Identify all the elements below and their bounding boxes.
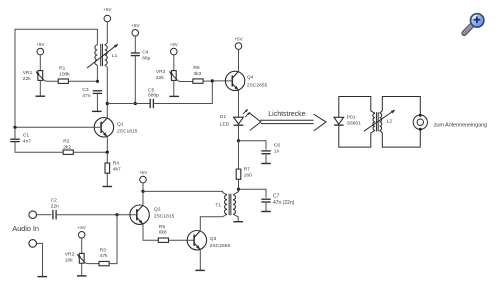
wire Q1 collector to rail node <box>106 104 108 118</box>
power +5V above C4 <box>132 30 139 37</box>
svg-text:3k3: 3k3 <box>193 71 201 77</box>
ground under Q3 <box>195 269 205 271</box>
svg-text:680p: 680p <box>148 93 159 99</box>
wire Q4 emitter to D1 <box>238 90 240 117</box>
wire +5V to Q4 collector <box>238 49 240 71</box>
svg-text:R1: R1 <box>59 65 66 71</box>
wire Q3 emitter to ground <box>199 250 201 271</box>
transistor Q3 <box>187 231 206 250</box>
wire R4 top lead <box>106 152 108 163</box>
ground under VR1 <box>36 95 46 97</box>
node Q2 collector / T1 junction <box>141 190 144 193</box>
power +5V above VR2 <box>78 232 85 239</box>
wire VR3 bottom to ground <box>173 80 175 96</box>
wire R7 top lead <box>238 141 240 169</box>
svg-text:R5: R5 <box>159 224 166 230</box>
svg-text:2SC2655: 2SC2655 <box>210 243 231 249</box>
power +5V above VR1 <box>37 48 44 55</box>
power +5V above Q4 <box>235 43 242 50</box>
node R7 / T1 / C7 junction <box>237 188 240 191</box>
resistor R5 <box>158 238 168 242</box>
svg-text:47n: 47n <box>82 93 90 99</box>
wire C1 bottom to R2 <box>15 142 63 153</box>
wire Q1 emitter down <box>106 137 108 152</box>
svg-text:S6801: S6801 <box>347 120 361 126</box>
node D1 / R7 / C6 junction <box>237 139 240 142</box>
svg-text:Lichtstrecke: Lichtstrecke <box>268 109 305 118</box>
capacitor C4 <box>131 52 140 54</box>
svg-text:+5V: +5V <box>234 36 243 41</box>
svg-text:C7: C7 <box>273 194 280 200</box>
icon zoom magnifier <box>464 14 484 34</box>
svg-text:160: 160 <box>244 173 252 179</box>
svg-text:+5V: +5V <box>131 23 140 28</box>
wire VR1 bottom to ground <box>39 80 41 96</box>
connector Audio In terminal 1 <box>29 211 37 219</box>
svg-text:6k8: 6k8 <box>159 230 167 236</box>
wire C5 to Q4 base node <box>153 81 212 104</box>
svg-text:R6: R6 <box>193 65 200 71</box>
transistor Q1 <box>94 118 113 137</box>
ground under C3 <box>92 110 102 112</box>
node Q1 base / C1 / feedback junction <box>13 126 16 129</box>
svg-text:Q4: Q4 <box>247 75 254 81</box>
svg-text:22n: 22n <box>51 203 59 209</box>
svg-text:10k: 10k <box>65 258 73 264</box>
svg-text:47k: 47k <box>100 253 108 259</box>
wire node to Q2 base <box>117 214 137 216</box>
node C4/rail junction <box>134 102 137 105</box>
wire C4 to rail <box>134 56 136 104</box>
wire T1 right winding bottom to ground <box>233 214 238 221</box>
svg-text:Q1: Q1 <box>117 121 124 127</box>
svg-text:+5V: +5V <box>36 42 45 47</box>
wire VR2 wiper to R3 <box>85 263 99 264</box>
wire L1 left winding bottom to node <box>96 65 98 81</box>
wire C6 to ground <box>265 154 267 164</box>
node L1/R1/C3 junction <box>96 80 99 83</box>
svg-text:R4: R4 <box>113 160 120 166</box>
wire R5 to Q3 base <box>169 239 195 241</box>
wire R4 to ground <box>106 173 108 186</box>
resistor R6 <box>193 79 203 83</box>
wire R1 to node <box>68 80 97 82</box>
node Q1 collector / rail junction <box>106 102 109 105</box>
wire node to Q4 base <box>212 80 232 82</box>
svg-text:C2: C2 <box>51 197 58 203</box>
wire R7 bottom to node <box>238 179 240 189</box>
wire R6 to Q4 base node <box>203 80 212 82</box>
wire +5V to VR3 <box>173 55 175 71</box>
wire +5V to C4 <box>134 36 136 53</box>
D1 emission arrow 2 <box>245 113 249 117</box>
svg-text:VR2: VR2 <box>65 252 75 258</box>
svg-text:C3: C3 <box>82 87 89 93</box>
wire D1 cathode down <box>238 125 240 141</box>
Lichtstrecke beam shaft <box>260 119 314 121</box>
connector pin dot bottom <box>419 128 422 131</box>
resistor R4 <box>105 163 110 173</box>
wire VR3 wiper to R6 <box>177 80 193 82</box>
svg-text:C6: C6 <box>274 143 281 149</box>
wire node to C7 <box>239 189 267 198</box>
wire C1 top lead <box>14 127 16 139</box>
trimmer VR3 <box>171 71 176 81</box>
svg-text:47n (22n): 47n (22n) <box>273 200 295 206</box>
ground under C7 <box>261 211 271 213</box>
wire node to T1 left winding <box>143 191 227 194</box>
svg-text:4k7: 4k7 <box>113 166 121 172</box>
capacitor C6 <box>261 150 270 152</box>
svg-text:L2: L2 <box>387 119 393 125</box>
resistor R2 <box>63 150 73 154</box>
power +5V above L1 <box>104 15 111 22</box>
D1 emission arrow 1 <box>243 110 247 114</box>
resistor R1 <box>58 79 68 83</box>
svg-text:VR1: VR1 <box>23 70 33 76</box>
LED D1 <box>234 117 244 124</box>
svg-text:R3: R3 <box>100 248 107 254</box>
svg-text:R2: R2 <box>63 139 70 145</box>
svg-text:1n: 1n <box>274 149 280 155</box>
node Q4 base junction <box>211 79 214 82</box>
ground under R4 <box>103 186 113 188</box>
wire terminal 2 to ground <box>37 243 43 276</box>
wire C2 to Q2 base node <box>56 214 117 216</box>
wire C3 to ground <box>96 93 98 111</box>
wire R3 up to base node <box>109 215 117 264</box>
capacitor C5 <box>149 99 151 108</box>
transistor Q2 <box>130 205 149 224</box>
svg-text:2k2: 2k2 <box>63 145 71 151</box>
svg-text:Audio In: Audio In <box>12 224 39 233</box>
L2 arrow (variable) <box>364 111 394 131</box>
wire node to C6 <box>239 141 267 150</box>
wire +5V to Q2 collector node <box>142 183 144 192</box>
svg-text:+5V: +5V <box>78 225 87 230</box>
wire antenna loop right box <box>380 97 421 115</box>
connector antenna output jack <box>413 115 427 129</box>
ground under T1 <box>233 221 243 223</box>
power +5V above Q2 <box>140 176 147 183</box>
wire Q3 collector to T1 left winding bottom <box>200 214 227 231</box>
connector pin dot top <box>419 114 422 117</box>
wire +5V to L1 right winding <box>105 22 108 45</box>
svg-text:Q2: Q2 <box>154 206 161 212</box>
svg-text:C4: C4 <box>142 50 149 56</box>
transistor Q4 <box>225 71 244 90</box>
photodiode P01 S6801 <box>334 117 344 124</box>
wire L1 right winding bottom to collector rail node <box>105 65 108 104</box>
svg-text:P01: P01 <box>347 114 356 120</box>
wire Q2 emitter to R5 <box>143 224 158 240</box>
wire Q1 base from node <box>15 126 101 128</box>
svg-text:+5V: +5V <box>139 170 148 175</box>
wire Q2 collector up <box>142 191 144 205</box>
power +5V above VR3 <box>171 48 178 55</box>
wire +5V to VR2 <box>81 238 83 253</box>
wire VR2 bottom to ground <box>81 263 83 276</box>
svg-text:22k: 22k <box>156 75 164 81</box>
svg-text:R7: R7 <box>244 167 251 173</box>
svg-text:VR3: VR3 <box>156 69 166 75</box>
svg-text:+5V: +5V <box>103 7 112 12</box>
ground under VR2 <box>77 275 87 277</box>
trimmer VR2 <box>79 253 84 263</box>
node Q1 emitter / R2 / R4 junction <box>106 151 109 154</box>
ground under VR3 <box>169 95 179 97</box>
ground under C6 <box>261 163 271 165</box>
wire T1 right winding top to R7 node <box>233 189 239 195</box>
capacitor C7 <box>261 198 270 200</box>
wire C7 to ground <box>265 202 267 211</box>
svg-text:T1: T1 <box>215 202 221 208</box>
wire feedback loop from L1 left winding to Q1 base node <box>15 29 97 127</box>
svg-text:2SC1815: 2SC1815 <box>117 129 138 135</box>
svg-text:LED: LED <box>220 121 230 127</box>
svg-text:100k: 100k <box>59 71 70 77</box>
svg-text:2SC1815: 2SC1815 <box>154 214 175 220</box>
wire terminal to C2 <box>37 214 52 216</box>
svg-text:zum Antenneneingang: zum Antenneneingang <box>434 123 487 129</box>
resistor R3 <box>99 261 109 265</box>
Lichtstrecke beam arrowhead <box>314 114 326 131</box>
inductor L1 variable transformer <box>95 45 97 65</box>
svg-text:22k: 22k <box>23 76 31 82</box>
capacitor C3 <box>93 90 102 92</box>
wire VR1 wiper to R1 <box>43 80 58 81</box>
svg-text:C1: C1 <box>23 132 30 138</box>
svg-text:D1: D1 <box>220 114 227 120</box>
svg-text:2SC2655: 2SC2655 <box>247 82 268 88</box>
capacitor C1 <box>10 138 19 140</box>
svg-text:4n7: 4n7 <box>23 138 31 144</box>
ground under terminal 2 <box>38 276 48 278</box>
inductor L2 variable transformer <box>373 113 375 130</box>
transformer T1 <box>225 195 227 214</box>
svg-text:+5V: +5V <box>170 42 179 47</box>
svg-text:L1: L1 <box>112 53 118 59</box>
trimmer VR1 <box>38 71 43 81</box>
L1 arrow (variable) <box>87 45 117 68</box>
capacitor C2 <box>52 210 54 219</box>
svg-text:Q3: Q3 <box>210 236 217 242</box>
wire receiver loop left box <box>339 97 375 118</box>
resistor R7 <box>236 169 241 179</box>
beam chevron at LED side <box>250 113 261 130</box>
node Q2 base / R3 junction <box>115 213 118 216</box>
wire +5V to VR1 <box>39 55 41 71</box>
wire R2 to emitter node <box>73 151 107 153</box>
wire oscillator rail to C5 <box>107 103 150 105</box>
svg-text:68p: 68p <box>142 56 150 62</box>
connector Audio In terminal 2 <box>29 240 37 248</box>
